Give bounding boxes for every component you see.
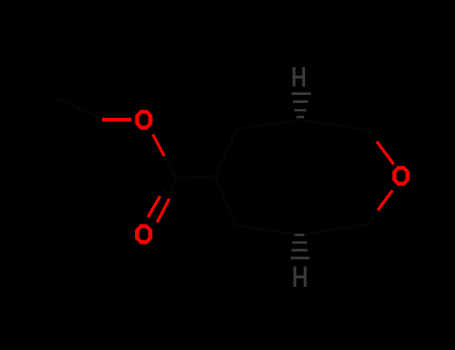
wire: ring O to C1 bond, red half [378, 190, 393, 210]
wire: C3 to ring O bond, red half [377, 142, 394, 165]
wedge: hashed stereo bond C3a-H dash 2 [293, 100, 308, 103]
wire: ring bond C6-C6a [236, 226, 300, 236]
atom H on C6a label [293, 266, 306, 287]
wedge: hashed stereo bond C6a-H dash 3 [292, 249, 308, 252]
wire: ester O to carbonyl C bond, red half [153, 134, 165, 156]
wire: C=O double bond line 1, red half [157, 199, 169, 223]
atom H on C3a label [293, 67, 306, 87]
wedge: hashed stereo bond C3a-H dash 1 [291, 92, 311, 95]
wedge: hashed stereo bond C6a-H dash 4 [291, 257, 310, 260]
wire: C3 to ring O bond, carbon half [368, 130, 378, 143]
atom O3 ring oxygen label [392, 166, 409, 186]
wire: ring O to C1 bond, carbon half [368, 211, 378, 225]
wedge: hashed stereo bond C3a-H dash 4 [297, 116, 305, 118]
wire: ring bond C5-C4 [215, 129, 237, 176]
wire: C=O double bond line 2, red half [148, 196, 160, 217]
wire: C=O double bond line 2, carbon half [160, 188, 165, 196]
wire: ester O to carbonyl C bond, carbon half [164, 156, 176, 178]
wire: CH2 to ester O bond (red) [102, 118, 132, 122]
wire: carbonyl C to ring C5 bond [176, 176, 215, 178]
wire: ethyl CH3-CH2 bond [58, 99, 101, 119]
wire: C=O double bond line 1, carbon half [169, 178, 176, 199]
wedge: hashed stereo bond C6a-H dash 1 [295, 234, 305, 236]
wire: ring bond C3a-C3 [301, 120, 369, 130]
wire: ring bond C5-C6 [215, 176, 236, 226]
wedge: hashed stereo bond C3a-H dash 3 [294, 109, 306, 111]
wire: ring bond C4-C3a [237, 120, 301, 129]
wedge: hashed stereo bond C6a-H dash 2 [292, 241, 307, 244]
atom O2 carbonyl oxygen label [135, 224, 152, 244]
atom O1 ester oxygen label [135, 110, 152, 130]
wire: ring bond C6a-C1 [300, 224, 368, 235]
